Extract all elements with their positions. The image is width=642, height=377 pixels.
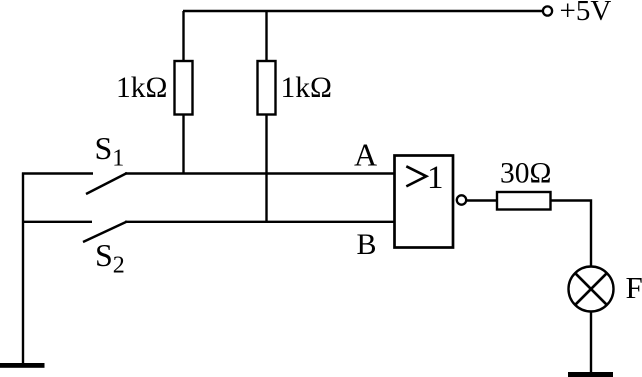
lamp F body — [569, 267, 614, 312]
switch S1 blade — [86, 173, 127, 194]
svg-text:+5V: +5V — [560, 0, 612, 27]
wire R3 to lamp (corner) — [551, 201, 592, 268]
OR gate U1 body — [395, 156, 454, 248]
wire R1 bottom to node A line — [182, 115, 184, 175]
resistor R1 1kΩ — [175, 61, 193, 115]
ground (left) — [0, 363, 45, 368]
switch S2 blade — [83, 222, 127, 243]
svg-text:30Ω: 30Ω — [500, 157, 551, 189]
svg-text:F: F — [626, 270, 642, 305]
svg-text:B: B — [357, 228, 377, 261]
wire from bus down to R2 — [265, 11, 267, 62]
wire from bus down to R1 — [182, 11, 184, 62]
wire node A line to gate — [125, 172, 395, 174]
terminal +5V (open circle) — [543, 6, 552, 15]
inverting output bubble — [457, 195, 466, 204]
wire lamp to ground — [590, 312, 592, 374]
switch S1 left lead — [22, 172, 93, 174]
svg-text:1kΩ: 1kΩ — [281, 72, 332, 104]
wire top +5V bus — [183, 10, 543, 12]
svg-text:1: 1 — [427, 160, 444, 196]
ground (right) — [568, 372, 613, 377]
svg-text:A: A — [354, 137, 377, 173]
wire node B line to gate — [125, 221, 395, 223]
resistor R3 30Ω — [497, 192, 551, 210]
resistor R2 1kΩ — [258, 61, 276, 115]
wire R2 bottom through node A line to node B line — [265, 115, 267, 223]
switch S2 left lead — [22, 221, 92, 223]
lamp F cross — [575, 273, 607, 305]
svg-text:1kΩ: 1kΩ — [116, 72, 167, 104]
gate symbol label >1 — [406, 166, 426, 186]
wire left vertical rail — [22, 173, 24, 365]
wire gate output to R3 — [466, 199, 498, 201]
